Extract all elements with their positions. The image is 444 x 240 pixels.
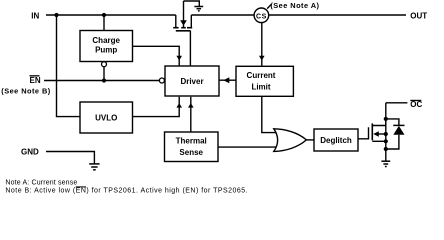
transistor Q1 gate bar — [176, 30, 191, 32]
arrow Thermal into Driver — [188, 103, 194, 108]
svg-text:Note A: Current sense: Note A: Current sense — [5, 179, 77, 186]
wire IN to Charge Pump — [103, 15, 105, 31]
arrow Current Limit into Driver — [223, 77, 229, 83]
svg-text:GND: GND — [21, 148, 39, 157]
leader See Note A — [267, 4, 271, 8]
wire IN line — [46, 14, 176, 16]
svg-text:CS: CS — [256, 13, 267, 20]
ground symbol OC — [381, 160, 390, 162]
svg-text:UVLO: UVLO — [95, 113, 117, 122]
svg-text:EN: EN — [30, 76, 41, 85]
wire UVLO to Driver — [133, 97, 180, 117]
transistor Q1 body wire — [183, 1, 185, 21]
wire body to ground — [184, 1, 200, 6]
current sense CS circle — [254, 8, 269, 23]
svg-text:Thermal: Thermal — [176, 137, 207, 146]
svg-text:Charge: Charge — [92, 36, 120, 45]
svg-text:(See Note B): (See Note B) — [1, 87, 50, 96]
transistor Q1 right lead — [187, 27, 192, 29]
wire Thermal Sense to OR gate — [218, 146, 277, 148]
arrowheads — [54, 13, 404, 151]
svg-text:Deglitch: Deglitch — [320, 136, 352, 145]
junction dot IN/CP — [102, 13, 106, 17]
transistor Q1 middle contact — [181, 27, 186, 29]
transistor Q2 channel bar — [371, 123, 373, 140]
block Driver — [165, 66, 219, 96]
wire Deglitch to Q2 gate — [358, 127, 369, 139]
transistor Q1 pass FET left lead — [175, 15, 177, 27]
wire CS to Current Limit — [261, 23, 263, 67]
wire OC bus — [385, 103, 387, 161]
arrow CP into Driver — [176, 56, 182, 61]
arrow UVLO into Driver — [176, 103, 182, 108]
diode D1 cathode bar — [393, 124, 404, 126]
transistor Q2 drain lead — [372, 119, 386, 126]
bubble Driver EN input — [159, 78, 164, 83]
ground symbol top — [194, 6, 203, 8]
wire OC output — [386, 102, 408, 104]
wire diode top branch — [386, 119, 399, 126]
wire Current Limit to Driver — [219, 79, 236, 81]
wire EN line — [44, 80, 159, 82]
junction dot IN/UVLO — [54, 13, 58, 17]
svg-text:IN: IN — [31, 11, 39, 20]
svg-text:Limit: Limit — [251, 82, 270, 91]
wire diode bottom branch — [386, 135, 399, 149]
svg-text:OUT: OUT — [410, 12, 427, 21]
junction dot Q2 source — [384, 139, 388, 143]
bubble CP EN input — [102, 62, 107, 67]
OR gate U1 — [274, 129, 307, 152]
transistor Q2 source lead — [372, 140, 386, 142]
block Charge Pump — [80, 31, 133, 62]
transistor Q2 body lead — [377, 133, 386, 135]
diode D1 triangle — [393, 126, 404, 135]
wire Charge Pump EN bubble to EN line — [103, 67, 105, 81]
block Thermal Sense — [165, 132, 219, 162]
svg-text:Sense: Sense — [179, 148, 203, 157]
wire GND line — [46, 152, 94, 164]
wire OR gate to Deglitch — [306, 139, 314, 141]
wire IN to UVLO — [57, 15, 81, 117]
junction dot EN — [102, 78, 106, 82]
junction dot diode bottom — [384, 147, 388, 151]
junction dot Q2 body — [384, 132, 388, 136]
arrow Q2 body (points left) — [373, 131, 379, 137]
wire FET source to OUT — [191, 14, 406, 16]
ground symbol GND — [89, 163, 99, 165]
wire Thermal Sense to Driver — [190, 97, 192, 132]
block Deglitch — [314, 129, 358, 151]
svg-text:Note B: Active low (EN) for TP: Note B: Active low (EN) for TPS2061. Act… — [5, 188, 248, 195]
svg-text:Pump: Pump — [95, 45, 117, 54]
block Current Limit — [236, 66, 293, 96]
svg-text:OC: OC — [410, 100, 422, 109]
svg-text:Driver: Driver — [180, 77, 203, 86]
wire gate to Driver — [189, 31, 191, 66]
svg-text:Current: Current — [247, 71, 276, 80]
wire Charge Pump to Driver — [133, 46, 180, 65]
svg-text:(See Note A): (See Note A) — [270, 1, 319, 10]
overline EN in note B — [76, 186, 86, 187]
wire Current Limit to OR gate — [262, 96, 277, 132]
arrow CS into Current Limit — [259, 56, 265, 61]
junction dot OC top — [384, 117, 388, 121]
arrow Q1 body down — [180, 20, 187, 26]
block UVLO — [80, 102, 133, 133]
